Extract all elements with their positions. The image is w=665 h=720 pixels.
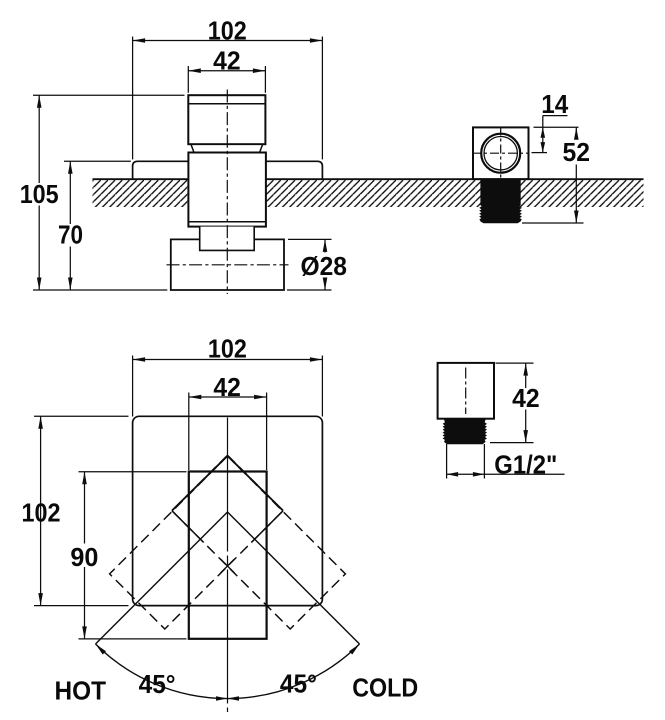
centerline vertical (fitting rear) bbox=[465, 368, 467, 415]
svg-text:42: 42 bbox=[512, 383, 540, 413]
dimension G1/2 thread (fitting rear) bbox=[447, 444, 565, 480]
faucet side view: neck trapezoid bbox=[191, 144, 263, 152]
dimension 102 top (front view) bbox=[133, 334, 323, 417]
svg-text:52: 52 bbox=[563, 137, 591, 167]
45deg arc with arrows bbox=[96, 644, 360, 701]
svg-text:G1/2": G1/2" bbox=[494, 450, 557, 480]
centerline horizontal (inlet block) bbox=[167, 264, 289, 266]
svg-text:COLD: COLD bbox=[352, 673, 418, 703]
wall hatch band bbox=[93, 179, 644, 207]
faucet side view: inlet neck bbox=[200, 227, 255, 251]
wall top surface line bbox=[93, 178, 644, 180]
front view: handle rotated -45deg (dashed) bbox=[110, 456, 284, 629]
centerline crosshair (fitting circle) bbox=[472, 127, 530, 180]
svg-text:HOT: HOT bbox=[55, 676, 107, 706]
dimension 90 (front view) bbox=[70, 472, 186, 639]
front view: pivot cross mark bbox=[221, 559, 235, 573]
dimension 42 (fitting rear) bbox=[490, 363, 540, 443]
dimension 42 (front view) bbox=[189, 372, 267, 470]
faucet side view: handle knob bbox=[188, 95, 265, 144]
svg-text:42: 42 bbox=[213, 46, 241, 76]
45deg swing rays bbox=[96, 512, 360, 644]
front view: centerline vertical bbox=[227, 418, 229, 713]
svg-text:45°: 45° bbox=[139, 669, 176, 699]
svg-text:42: 42 bbox=[213, 372, 241, 402]
svg-text:Ø28: Ø28 bbox=[300, 251, 347, 281]
svg-text:90: 90 bbox=[70, 542, 98, 572]
svg-text:102: 102 bbox=[22, 497, 61, 527]
wall fitting side view: inlet circle bbox=[481, 134, 520, 173]
wall fitting side view: square body bbox=[473, 127, 529, 179]
dimension D28 inlet (side view) bbox=[287, 239, 347, 290]
front view: handle/body rectangle bbox=[189, 472, 267, 639]
svg-text:14: 14 bbox=[541, 89, 569, 119]
svg-text:102: 102 bbox=[208, 15, 247, 45]
svg-text:70: 70 bbox=[58, 220, 83, 250]
wall fitting rear view: square body bbox=[438, 363, 494, 419]
dimension 105 left (side view) bbox=[20, 95, 185, 290]
dimension 52 (fitting side) bbox=[522, 127, 590, 223]
dimension 42 top (side view) bbox=[188, 46, 265, 93]
faucet side view: base plate bbox=[133, 161, 323, 179]
threaded tail (black) rear view bbox=[443, 419, 486, 444]
front view: handle rotated +45deg (dashed) bbox=[172, 456, 346, 629]
centerline vertical (side view) bbox=[226, 90, 228, 295]
faucet side view: valve body bbox=[188, 153, 266, 227]
dimension 102 top (side view) bbox=[133, 15, 323, 159]
dimension 70 left (side view) bbox=[58, 161, 131, 290]
svg-text:45°: 45° bbox=[280, 669, 317, 699]
dimension 102 left (front view) bbox=[22, 416, 129, 605]
front view: solid apex V (neutral handle edges) bbox=[172, 456, 283, 543]
svg-text:102: 102 bbox=[208, 334, 247, 364]
threaded tail (black) side view bbox=[480, 179, 521, 223]
svg-text:105: 105 bbox=[20, 179, 59, 209]
faucet side view: inlet connector block bbox=[171, 239, 284, 290]
dimension 14 (fitting side) bbox=[532, 89, 579, 153]
front view: base plate (rounded square) bbox=[133, 416, 323, 605]
